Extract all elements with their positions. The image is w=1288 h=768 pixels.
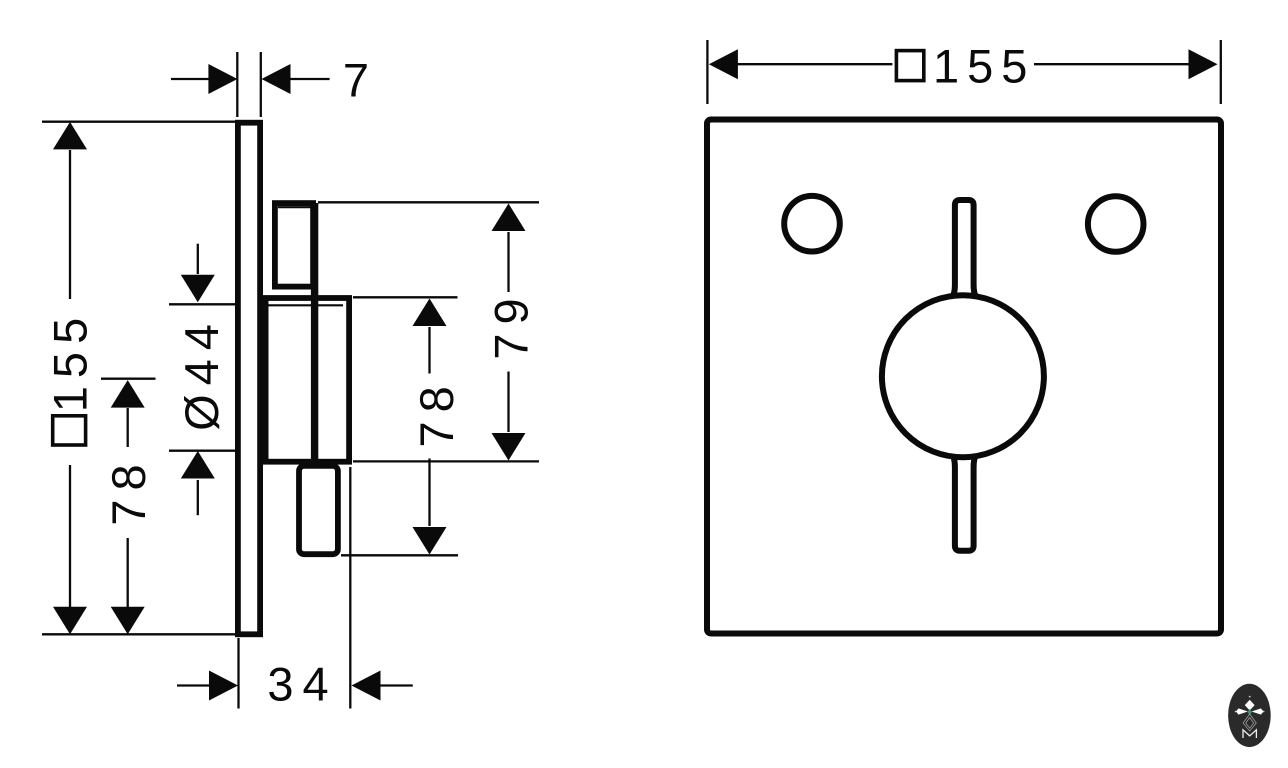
dimension 155top: square glyph — [896, 51, 923, 81]
dimension 155top: arrow right — [1189, 49, 1218, 79]
handle box side view — [275, 203, 313, 287]
extension line 78mid top — [353, 296, 458, 298]
dimension 78mid: arrow down — [413, 527, 447, 555]
dimension 78 left: line bottom — [127, 538, 129, 607]
dimension 79: line bottom — [507, 372, 509, 433]
tick dia44 top — [169, 303, 236, 305]
logo teal center — [1247, 709, 1252, 715]
extension line 79 bottom / cartridge bottom extended — [353, 460, 539, 462]
dimension square155 left: line bottom — [69, 465, 71, 607]
dimension 78 left: arrow down — [111, 607, 145, 635]
cartridge inner top line — [268, 304, 344, 306]
handle knob circle — [882, 295, 1044, 457]
logo letter M — [1243, 730, 1256, 738]
dimension 78 left: line top — [127, 408, 129, 447]
extension line 79 top — [318, 201, 539, 203]
svg-text:78: 78 — [410, 377, 463, 447]
dimension square155 left: arrow down — [53, 607, 87, 635]
svg-text:Ø44: Ø44 — [175, 315, 228, 431]
dimension 155top: line left — [737, 63, 892, 65]
logo left diamond — [1236, 708, 1248, 714]
extension line 7-dim left vertical — [236, 52, 238, 117]
dimension 78mid: line bottom — [428, 459, 430, 527]
dimension dia44: line above — [197, 244, 199, 274]
dimension 78mid: line top — [428, 327, 430, 374]
svg-text:155: 155 — [44, 310, 97, 412]
dimension 79: arrow down — [492, 433, 526, 461]
extension line plate-bottom left — [42, 633, 235, 635]
dimension square155 left: square glyph — [53, 416, 86, 445]
dimension 79: arrow up — [492, 204, 526, 232]
cartridge middle box side view — [266, 298, 350, 462]
handle inner cap line — [278, 206, 311, 208]
dimension dia44: arrow up — [181, 451, 215, 479]
dimension dia44: arrow down — [181, 275, 215, 303]
logo top diamond — [1245, 700, 1255, 711]
escutcheon plate side view — [238, 123, 260, 635]
extension line 34 right — [349, 467, 351, 709]
extension line 155top right — [1220, 40, 1222, 104]
dimension square155 left: arrow up — [53, 122, 87, 149]
screw hole right — [1088, 196, 1144, 252]
square escutcheon front view — [707, 120, 1221, 634]
logo sparkle dots — [1235, 711, 1237, 713]
dimension 79: line top — [507, 232, 509, 292]
extension line 34 left — [237, 638, 239, 709]
svg-text:155: 155 — [933, 40, 1035, 93]
dimension 7: line right — [290, 78, 330, 80]
extension line 78mid bottom — [341, 554, 458, 556]
dimension dia44: line below — [197, 480, 199, 515]
extension line 155top left — [706, 40, 708, 104]
dimension 34: arrow right-pointing — [209, 671, 238, 701]
extension line 7-dim right vertical — [260, 52, 262, 117]
dimension 7: line left — [171, 78, 210, 80]
dimension 155top: line right — [1034, 63, 1189, 65]
svg-text:79: 79 — [485, 289, 538, 359]
dimension 34: arrow left-pointing — [352, 671, 381, 701]
bottom port box side view — [299, 466, 338, 554]
dimension square155 left: line top — [69, 150, 71, 299]
logo ellipse — [1228, 684, 1271, 747]
lever top bar — [951, 200, 978, 300]
dimension 78 left: arrow up — [111, 380, 145, 408]
svg-text:34: 34 — [267, 658, 337, 711]
svg-text:78: 78 — [102, 455, 155, 525]
dimension 155top: arrow left — [709, 49, 738, 79]
logo right diamond — [1252, 708, 1264, 714]
dimension 34: line left — [177, 684, 209, 686]
svg-text:7: 7 — [343, 54, 369, 107]
extension line plate-top left (for square155 left dim) — [42, 121, 236, 123]
dimension 34: line right — [380, 684, 413, 686]
dimension 7: arrow left — [208, 64, 237, 94]
lever bottom bar — [951, 453, 978, 551]
dimension 78mid: arrow up — [413, 299, 447, 327]
dimension 7: arrow right — [262, 64, 291, 94]
tick dia44 bottom — [169, 450, 236, 452]
screw hole left — [784, 196, 840, 252]
valve stem vertical bar — [311, 203, 318, 464]
logo crystal lattice — [1243, 714, 1256, 731]
tick for 78 left top — [101, 378, 156, 380]
